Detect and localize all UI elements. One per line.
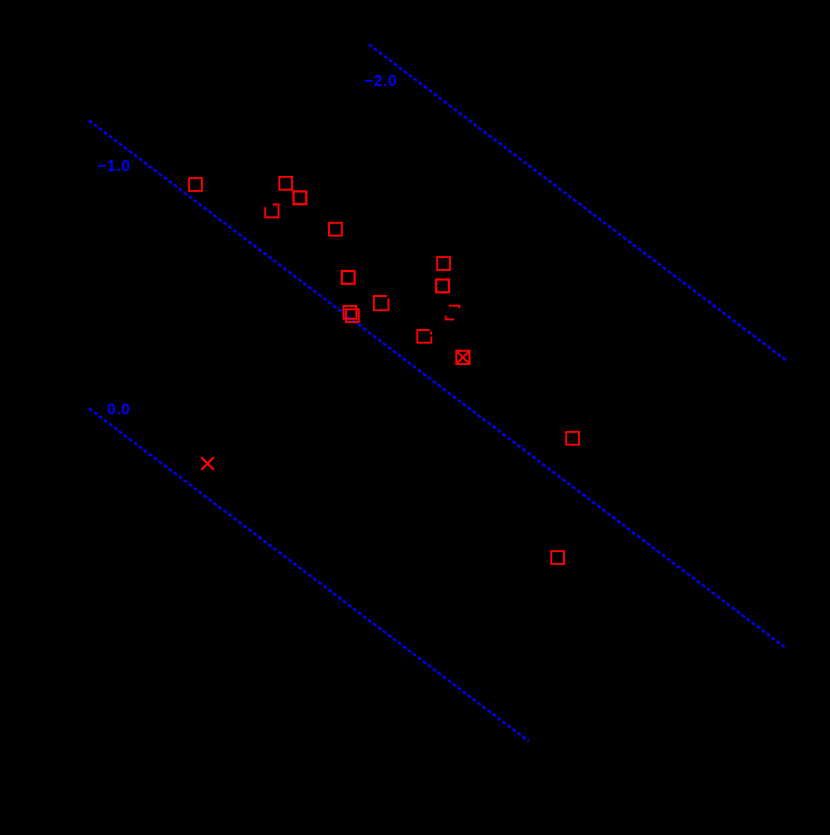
marker square 8	[436, 280, 449, 293]
marker square 11	[417, 330, 431, 343]
svg-text:0.0: 0.0	[107, 402, 131, 419]
contour line -2.0	[369, 45, 786, 361]
marker partial square 12	[446, 306, 460, 320]
marker square 10a	[344, 306, 357, 319]
svg-text:−2.0: −2.0	[364, 73, 397, 90]
marker square 7	[437, 257, 450, 270]
contour line -1.0	[89, 121, 785, 648]
marker square-with-X 13	[456, 351, 469, 364]
marker X 16	[201, 457, 214, 470]
marker partial square 4	[265, 204, 278, 217]
contour line 0.0	[89, 408, 529, 741]
marker square 3	[294, 191, 307, 204]
marker square 1	[189, 178, 202, 191]
marker square 14	[566, 432, 579, 445]
marker square 5	[329, 223, 342, 236]
marker square 2	[279, 177, 292, 190]
marker square 10b	[346, 309, 359, 322]
marker partial square 9	[374, 296, 389, 310]
marker square 15	[551, 551, 564, 564]
svg-text:−1.0: −1.0	[97, 158, 130, 175]
marker square 6	[342, 271, 355, 284]
